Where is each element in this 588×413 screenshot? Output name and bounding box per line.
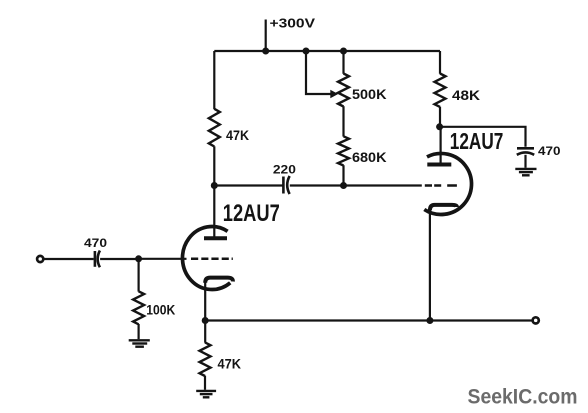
wire V1 cathode lead [204, 282, 206, 321]
svg-text:100K: 100K [146, 302, 175, 317]
wire left branch from rail to resistor 47K [213, 51, 215, 109]
wire V1 plate lead [213, 186, 215, 237]
wire grid V1 dashed [191, 258, 233, 261]
node dot wiper branch [303, 48, 310, 55]
resistor 100K grid leak [133, 259, 144, 339]
capacitor 470 (bypass) [517, 148, 534, 155]
tube V2 envelope [424, 153, 471, 214]
wire capacitor to grid node [100, 258, 139, 260]
potentiometer 500K [338, 74, 349, 107]
tube V1 cathode [205, 278, 233, 283]
node dot cathode junction [426, 317, 433, 324]
wire 680K bottom lead [342, 165, 344, 185]
wire 47K bottom to plate node [213, 146, 215, 185]
wire coupling node to capacitor 220 [214, 184, 283, 186]
wire +300V lead [265, 20, 267, 52]
resistor 48K (plate load V2) [435, 74, 446, 107]
terminal input [37, 256, 43, 262]
svg-text:12AU7: 12AU7 [223, 200, 280, 227]
tube V1 envelope [182, 227, 230, 290]
node dot divider [340, 182, 347, 189]
svg-text:12AU7: 12AU7 [450, 128, 504, 154]
wire pot to 680K [342, 106, 344, 136]
svg-text:680K: 680K [352, 150, 387, 165]
wire 47K to ground [204, 376, 206, 390]
capacitor 220 [283, 176, 289, 194]
wire plate node to bypass capacitor [440, 127, 526, 147]
wire pot wiper feed [306, 51, 331, 94]
wire bottom output rail [205, 319, 531, 321]
resistor 680K [338, 136, 349, 165]
resistor 47K cathode [200, 342, 211, 376]
node dot V1 cathode junction [202, 317, 209, 324]
node dot grid node [135, 255, 142, 262]
node dot B+ tap [262, 48, 269, 55]
wire top B+ rail [214, 50, 440, 52]
ground bypass [515, 169, 536, 175]
node dot pot top [340, 48, 347, 55]
node dot V1 plate node [211, 182, 218, 189]
tube V2 cathode [430, 205, 457, 211]
wire 48K top lead [439, 51, 441, 74]
wire V2 plate lead [440, 127, 442, 163]
ground 47K [196, 391, 216, 397]
svg-text:SeekIC.com: SeekIC.com [468, 386, 578, 409]
svg-text:220: 220 [273, 163, 296, 177]
wire 48K bottom to plate node [439, 107, 441, 127]
resistor 47K (plate load V1) [209, 109, 220, 147]
wire cathode node to resistor 47K [204, 321, 206, 343]
svg-text:47K: 47K [226, 128, 249, 143]
terminal output [533, 317, 539, 323]
wire pot top lead [342, 51, 344, 74]
tube V2 plate bar [427, 163, 451, 167]
capacitor 470 (input) [95, 251, 100, 268]
wire input to capacitor 470 [44, 258, 94, 260]
wire grid node to tube V1 [139, 258, 187, 260]
pot wiper arrow [330, 90, 338, 99]
wire grid V2 dashed [425, 184, 457, 187]
svg-text:470: 470 [538, 144, 561, 158]
tube V1 plate bar [204, 236, 227, 240]
svg-text:47K: 47K [218, 357, 242, 372]
svg-text:500K: 500K [352, 87, 387, 102]
svg-text:470: 470 [84, 236, 107, 250]
svg-text:+300V: +300V [270, 17, 316, 31]
svg-text:48K: 48K [452, 88, 480, 103]
wire V2 cathode lead [429, 210, 431, 321]
wire bypass capacitor to ground [524, 155, 526, 168]
node dot V2 plate node [436, 123, 443, 130]
wire grid feed V2 solid [344, 184, 422, 186]
wire capacitor 220 to divider node [290, 184, 344, 186]
ground 100K [129, 340, 150, 346]
